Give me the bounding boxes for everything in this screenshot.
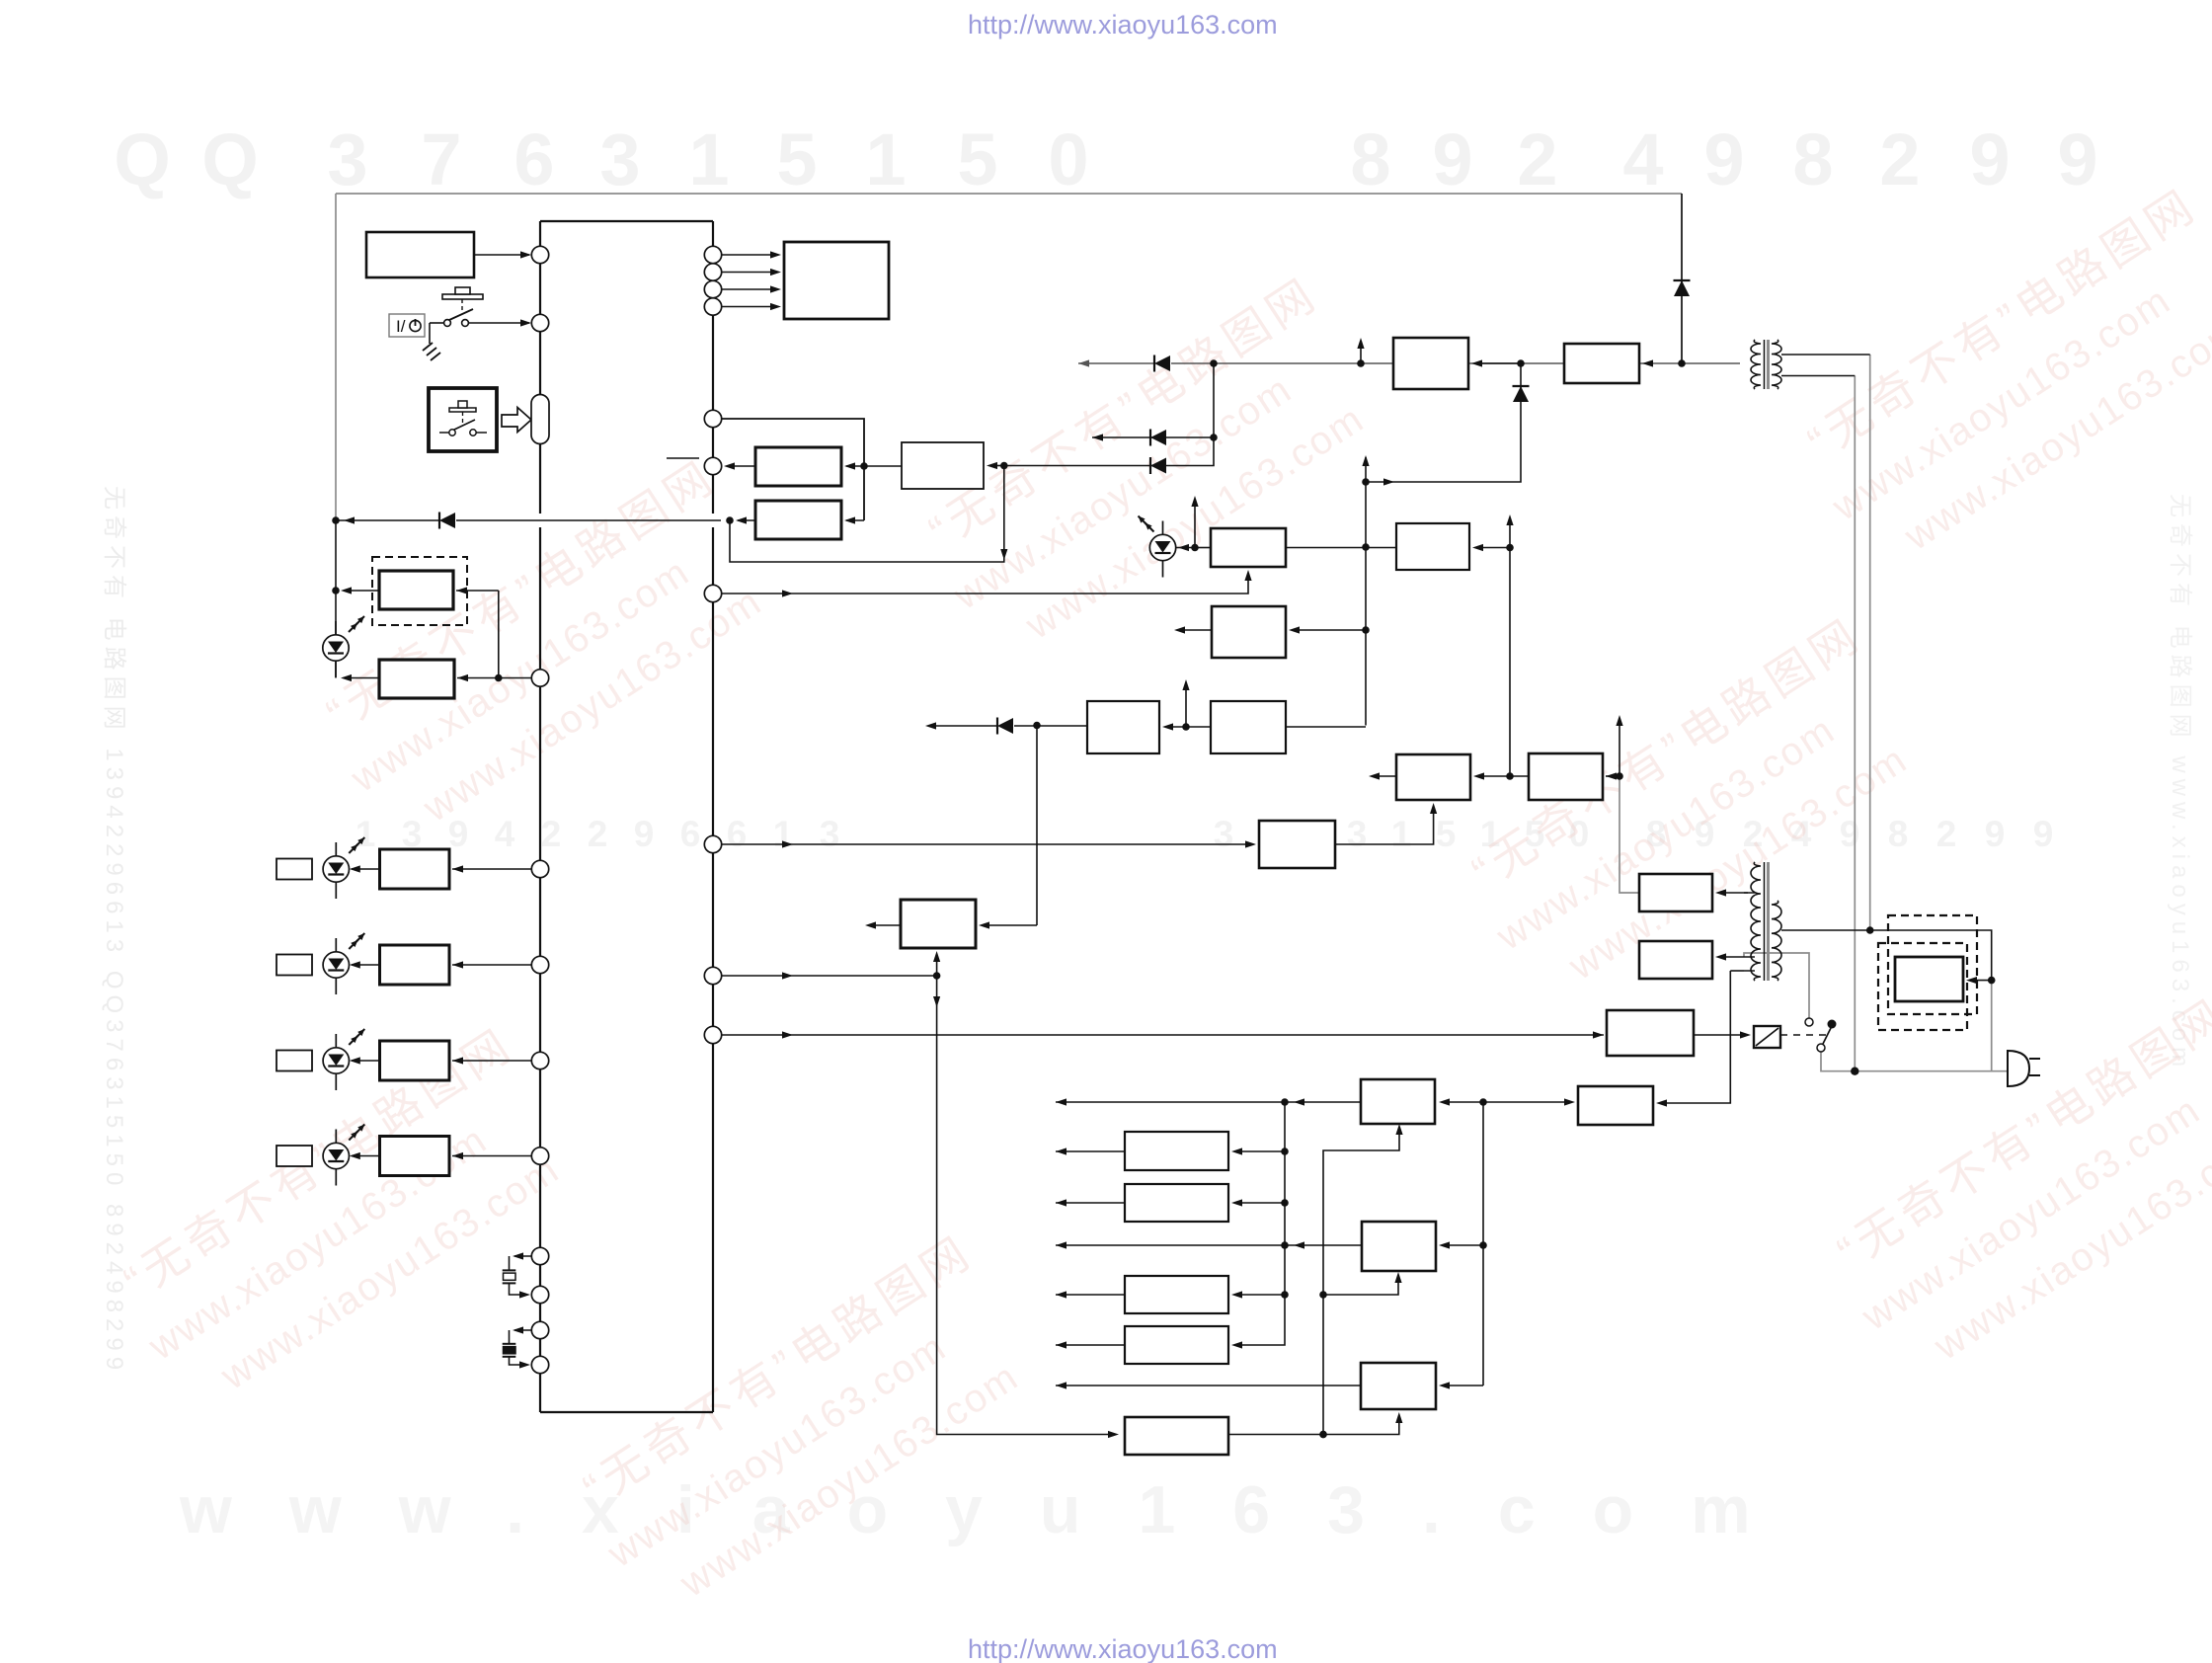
svg-text:9: 9 <box>2057 119 2097 200</box>
block BoxR <box>1361 1079 1435 1124</box>
IC internal pin mark <box>667 457 699 459</box>
block B3 <box>379 660 454 698</box>
pin R y=855 <box>704 835 721 852</box>
wire top-rail drop with diode <box>1681 194 1683 363</box>
svg-text:2: 2 <box>541 814 562 854</box>
svg-text:9: 9 <box>634 814 655 854</box>
pin R y=275.5 <box>704 264 721 280</box>
block BoxP <box>1125 1132 1228 1170</box>
svg-text:2: 2 <box>588 814 608 854</box>
wire reset line y=527 <box>336 519 438 521</box>
AC plug <box>2008 1051 2029 1086</box>
wire B2 output left <box>344 590 379 592</box>
wire rail to BoxA input <box>846 465 864 467</box>
relay dashed link <box>1780 1034 1827 1036</box>
svg-text:0: 0 <box>1048 119 1088 200</box>
pin L y=1382 <box>531 1356 548 1373</box>
svg-text:3: 3 <box>327 119 367 200</box>
junction stub <box>1357 359 1365 367</box>
rail x=1301 <box>1234 1102 1285 1345</box>
wire pin988 rail <box>722 975 937 977</box>
junction <box>1362 478 1370 486</box>
pin L y=327 <box>531 314 548 331</box>
LED D2 power indicator <box>323 616 364 677</box>
wire BoxW row y=1403 <box>1056 1385 1362 1386</box>
wire power switch to pin <box>468 322 529 324</box>
junction <box>1281 1291 1289 1299</box>
junction <box>1281 1098 1289 1106</box>
svg-text:4: 4 <box>495 814 515 854</box>
junction rectifier node <box>1616 772 1623 780</box>
junction <box>1362 543 1370 551</box>
wire transformer T1 secondary drop A (gray) <box>1869 355 1871 930</box>
svg-text:9: 9 <box>1985 814 2006 854</box>
T2 left taps <box>1744 892 1755 894</box>
block LED driver 3 <box>380 1041 450 1080</box>
wire BoxJ right to rail <box>1286 726 1366 728</box>
wire BoxM output arrow <box>868 924 901 926</box>
block BoxF <box>1396 754 1470 800</box>
svg-text:无奇不有 电路图网 13942296613 QQ376315: 无奇不有 电路图网 13942296613 QQ376315150 892498… <box>101 486 127 1376</box>
junction BoxB feed <box>1000 462 1008 470</box>
svg-text:Q: Q <box>114 119 171 200</box>
dashed box inner <box>1878 943 1967 1030</box>
svg-text:8: 8 <box>1792 119 1833 200</box>
svg-text:6: 6 <box>727 814 748 854</box>
block arrow <box>502 408 531 433</box>
crystal X1 <box>514 1255 531 1257</box>
svg-text:5: 5 <box>957 119 997 200</box>
wire BoxC output to node <box>738 519 755 521</box>
wire switch sense to BoxN2 (gray) <box>1744 953 1809 1018</box>
wire BoxJ to BoxI <box>1165 726 1186 728</box>
junction <box>1281 1148 1289 1155</box>
wire standby supply y=368 <box>1078 362 1153 364</box>
junction <box>1281 1241 1289 1249</box>
LED row mid (D9) <box>1139 516 1176 578</box>
BoxF/BoxG row y=786 <box>1606 775 1619 777</box>
block BoxW <box>1361 1363 1436 1409</box>
wire mains from switch to plug (gray) <box>1821 1052 2008 1071</box>
wire key-in box to pin <box>474 254 529 256</box>
svg-text:2: 2 <box>1879 119 1920 200</box>
svg-text:2: 2 <box>1517 119 1557 200</box>
block LED driver 2 <box>380 945 450 985</box>
pin R y=310.5 <box>704 298 721 315</box>
junction <box>1506 772 1514 780</box>
wire rail down to BoxC input <box>846 519 864 521</box>
wire pin(722,424) to power rail x=875 <box>722 419 864 520</box>
diode D4 <box>1154 356 1170 372</box>
twin diode outputs <box>1004 363 1214 466</box>
block BoxL <box>1259 821 1335 868</box>
junction top rail <box>1678 359 1686 367</box>
big system-control IC outline U1 <box>540 220 713 222</box>
junction <box>1479 1098 1487 1106</box>
svg-text:3: 3 <box>599 119 640 200</box>
junction left rail / reset line <box>332 516 340 524</box>
rail x=948.6 down <box>937 976 1116 1435</box>
svg-text:3: 3 <box>820 814 840 854</box>
wire node down-right then up to BoxB feed <box>730 466 1004 563</box>
svg-text:I/: I/ <box>396 317 406 336</box>
pin L y=1311 <box>531 1286 548 1303</box>
svg-text:4: 4 <box>1622 119 1663 200</box>
svg-text:5: 5 <box>1436 814 1457 854</box>
junction twin diode branch <box>1210 359 1218 367</box>
svg-text:6: 6 <box>680 814 701 854</box>
pin L y=1074 <box>531 1052 548 1069</box>
pin R y=1048 <box>704 1026 721 1043</box>
svg-text:2: 2 <box>1936 814 1957 854</box>
transformer T2 <box>1751 862 1761 981</box>
display unit box U2 <box>784 242 889 319</box>
power rail x=1383 <box>1365 457 1367 726</box>
watermark pink stamps <box>304 450 795 855</box>
wire mains from dashed PSU to plug (gray) <box>1991 981 1993 1071</box>
ground <box>429 323 431 344</box>
junction <box>1191 544 1199 552</box>
junction <box>1517 359 1525 367</box>
pin R y=293 <box>704 280 721 297</box>
wire power detect row y=735 <box>1014 725 1087 727</box>
wires cluster outputs west <box>1056 1150 1125 1152</box>
block BoxV <box>1125 1417 1228 1455</box>
svg-text:www.xiaoyu163.com: www.xiaoyu163.com <box>179 1472 1808 1547</box>
wire audio row y=1116 <box>1056 1101 1362 1103</box>
block LED driver 1 <box>380 849 450 889</box>
block BoxG <box>1529 753 1603 800</box>
LED row 4 indicator <box>276 1146 312 1166</box>
block BoxBB <box>1564 344 1639 383</box>
diode D3 <box>997 718 1013 735</box>
pin L y=1347 <box>531 1321 548 1338</box>
block LED driver 4 <box>380 1137 450 1176</box>
junction mains/T1 drop <box>1851 1068 1858 1075</box>
svg-text:3: 3 <box>1214 814 1234 854</box>
timer switch box S2 <box>429 388 497 451</box>
pin R y=472 <box>704 457 721 474</box>
junction <box>860 462 868 470</box>
diode D7 <box>1150 457 1166 474</box>
switch lever <box>1823 1028 1831 1044</box>
BoxH row <box>1292 629 1366 631</box>
junction <box>1033 722 1041 730</box>
svg-text:http://www.xiaoyu163.com: http://www.xiaoyu163.com <box>968 1634 1278 1663</box>
pin L y=1272 <box>531 1247 548 1264</box>
svg-text:9: 9 <box>1703 119 1744 200</box>
wires display data lines <box>722 254 778 256</box>
pin R y=424 <box>704 410 721 427</box>
svg-text:9: 9 <box>1432 119 1472 200</box>
block BoxN <box>1639 874 1712 911</box>
watermark digits row2 <box>355 814 2054 854</box>
rail x=1529 <box>1509 517 1511 776</box>
svg-text:1: 1 <box>355 814 376 854</box>
transformer T1 <box>1751 340 1761 389</box>
power stub up <box>1182 679 1189 690</box>
block BoxE <box>1396 523 1469 570</box>
diode D1 on reset line <box>439 513 455 529</box>
block BoxS <box>1125 1276 1228 1313</box>
arrow into left rail <box>344 516 355 523</box>
svg-text:Q: Q <box>201 119 259 200</box>
svg-text:无奇不有 电路图网 www.xiaoyu163.com: 无奇不有 电路图网 www.xiaoyu163.com <box>2167 494 2193 1072</box>
junction <box>1319 1431 1327 1439</box>
block BoxQ <box>1125 1184 1228 1222</box>
wire B3 input <box>457 677 499 679</box>
junction <box>1182 723 1190 731</box>
junction <box>1281 1199 1289 1207</box>
block BoxOO <box>1578 1086 1653 1125</box>
wire rectifier node to BoxN (gray) <box>1619 776 1639 893</box>
junction <box>933 972 941 980</box>
LED row 2 indicator <box>276 955 312 976</box>
junction <box>1319 1291 1327 1299</box>
wire transformer T1 secondary drop B (gray) <box>1854 376 1856 1071</box>
wire BoxU row y=1261 <box>1056 1244 1362 1246</box>
block BoxU <box>1362 1222 1436 1271</box>
key input block B1 <box>366 232 474 277</box>
pin L y=258 <box>531 246 548 263</box>
svg-text:8: 8 <box>1888 814 1909 854</box>
wire into BoxZ <box>1969 980 1992 982</box>
wire top rail (gray) <box>336 193 1682 195</box>
junction <box>1506 544 1514 552</box>
block BoxC <box>755 501 841 539</box>
block BoxAA <box>1393 338 1468 389</box>
svg-text:3: 3 <box>1347 814 1368 854</box>
junction mains <box>1988 977 1996 985</box>
block BoxT <box>1125 1326 1228 1364</box>
block BoxZ <box>1895 957 1963 1001</box>
junction <box>1362 626 1370 634</box>
wire into BoxAA <box>1474 362 1521 364</box>
wire left rail with LED <box>335 520 337 635</box>
svg-text:6: 6 <box>513 119 554 200</box>
block BoxA <box>755 447 841 486</box>
svg-text:7: 7 <box>421 119 461 200</box>
svg-text:5: 5 <box>776 119 817 200</box>
block BoxJ <box>1211 701 1286 753</box>
junction <box>1319 1431 1327 1439</box>
junction <box>1210 434 1218 441</box>
flow arrow <box>1383 478 1394 485</box>
capsule connector <box>531 395 549 444</box>
svg-text:9: 9 <box>1969 119 2010 200</box>
block BoxB <box>902 442 984 489</box>
watermark digits row1 <box>114 119 2097 200</box>
block BoxY relay driver <box>1607 1010 1694 1056</box>
block BoxH <box>1212 606 1286 658</box>
rail x=1752 to BoxOO <box>1659 971 1730 1103</box>
resonator X2 <box>514 1329 531 1331</box>
wire pin855 to BoxL <box>722 843 1253 845</box>
svg-text:1: 1 <box>865 119 906 200</box>
pin L y=977 <box>531 956 548 973</box>
inner block B2 <box>379 571 453 609</box>
wire pin1048 to BoxY <box>722 1034 1604 1036</box>
wire B3 output left <box>344 677 379 679</box>
T2 right tap <box>1781 930 1992 981</box>
wire B2 input from node <box>456 590 499 592</box>
block BoxI <box>1087 701 1159 753</box>
svg-text:http://www.xiaoyu163.com: http://www.xiaoyu163.com <box>968 10 1278 40</box>
wire pin to node <box>499 677 531 679</box>
wire rail to BoxB <box>864 465 902 467</box>
relay RY1 <box>1754 1026 1780 1048</box>
LED row 3 indicator <box>276 1051 312 1071</box>
dashed box (timer display block) <box>372 557 467 625</box>
wire BoxA output to pin <box>727 465 755 467</box>
switch S1 contacts <box>444 320 451 327</box>
wire BoxL to BoxF bottom <box>1335 806 1434 844</box>
junction <box>495 674 503 682</box>
pin R y=258 <box>704 246 721 263</box>
svg-text:1: 1 <box>688 119 729 200</box>
svg-text:1: 1 <box>1391 814 1412 854</box>
pin L y=686.5 <box>531 670 548 686</box>
block BoxN2 <box>1639 941 1712 979</box>
junction <box>1479 1241 1487 1249</box>
mains switch lever dot <box>1828 1020 1837 1029</box>
svg-text:8: 8 <box>1350 119 1390 200</box>
pin R y=988 <box>704 967 721 984</box>
dashed box outer <box>1888 915 1977 1014</box>
block BoxM regulator <box>901 900 976 948</box>
wire from dot down to D8 and rail <box>1369 363 1521 482</box>
wire BoxM input from right <box>982 924 1037 926</box>
switch S1 lever <box>449 309 473 320</box>
pin L y=1170.5 <box>531 1148 548 1164</box>
mains switch contact open (left) <box>1805 1018 1813 1026</box>
pin R y=601 <box>704 585 721 601</box>
pin L y=880 <box>531 860 548 877</box>
svg-text:9: 9 <box>2033 814 2054 854</box>
LED row 1 indicator <box>276 859 312 880</box>
svg-text:1: 1 <box>773 814 794 854</box>
junction left rail / dashed box output <box>332 587 340 594</box>
power switch S1 circuit <box>442 294 483 299</box>
mains switch pivot contact <box>1817 1044 1825 1052</box>
junction reset/dashed node <box>726 516 734 524</box>
I/power label <box>389 314 425 337</box>
diode D5 <box>1674 280 1691 296</box>
rail x=1340 <box>1323 1127 1399 1435</box>
rail x=1502 <box>1482 1102 1484 1386</box>
block BoxD <box>1211 528 1286 567</box>
diode D6 <box>1150 430 1166 446</box>
junction with T1 drop <box>1866 926 1874 934</box>
diode D8 <box>1513 386 1530 402</box>
wire pin601 to BoxD bottom <box>722 573 1248 594</box>
